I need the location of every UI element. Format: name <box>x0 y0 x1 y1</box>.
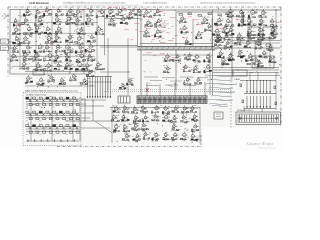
oscillator stage VO5 <box>80 78 90 86</box>
label tick 28 <box>29 14 31 16</box>
bundle arrow 15 <box>263 106 265 108</box>
junction rb0 <box>222 67 223 68</box>
oscillator stage VO1 <box>36 77 45 86</box>
switch junction 21 <box>33 126 34 127</box>
output stage VC1 <box>112 105 121 113</box>
switch contact S02a <box>39 97 42 99</box>
wafer arrow 1 <box>89 96 91 98</box>
solder dot 302 <box>44 94 47 97</box>
solder dot 300 <box>32 132 35 135</box>
svg-text:S1 BAND SWITCH front: S1 BAND SWITCH front <box>26 94 46 97</box>
resistor RC2 <box>274 86 276 89</box>
pencil note 8 <box>213 83 237 86</box>
bundle arrow 05 <box>263 91 265 93</box>
switch contact S02b <box>43 104 46 106</box>
AVC stage VS5 <box>227 52 235 60</box>
red annotation a16 <box>161 37 164 40</box>
amplifier stage V40 <box>32 52 42 62</box>
title underline <box>63 4 140 6</box>
red annotation b6 <box>276 21 282 24</box>
amplifier stage V33 <box>43 44 53 53</box>
switch junction 05 <box>60 99 61 100</box>
label tick 288 <box>79 115 81 117</box>
solder dot 162 <box>247 51 248 52</box>
pencil note 4 <box>206 91 234 94</box>
solder dot 243 <box>192 142 193 143</box>
switch blade S10 <box>29 113 32 115</box>
switch bank border <box>23 93 81 146</box>
red annotation a8 <box>163 25 166 27</box>
label tick 94 <box>168 28 170 30</box>
red annotation b18 <box>160 41 165 44</box>
label tick 284 <box>49 95 51 97</box>
output stage VC18 <box>191 114 199 122</box>
junction m2 <box>133 10 134 11</box>
audio stage VB3 <box>183 52 192 60</box>
amplifier stage V44 <box>75 52 86 63</box>
solder dot 248 <box>161 130 164 133</box>
connector P1 <box>214 112 223 119</box>
driver stage V30b <box>256 60 263 68</box>
wire rbus2 <box>213 72 279 74</box>
label tick 213 <box>38 80 39 82</box>
red annotation c6 <box>50 43 54 46</box>
red annotation b8 <box>218 27 224 30</box>
bundle arrow 13 <box>256 106 258 108</box>
output stage VC12 <box>133 114 142 123</box>
red annotation b17 <box>152 39 155 41</box>
label tick 262 <box>187 128 188 130</box>
solder dot 210 <box>90 84 93 87</box>
label tick 281 <box>260 66 262 68</box>
bundle arrow 07 <box>269 91 271 93</box>
IF stage VI1 <box>153 8 161 16</box>
solder dot 216 <box>46 71 49 74</box>
solder dot 197 <box>189 70 192 73</box>
wafer wire 1 <box>89 77 91 97</box>
solder dot 54 <box>70 64 73 67</box>
switch contact S07a <box>73 97 76 99</box>
wafer arrow 0 <box>87 96 89 98</box>
label tick 152 <box>273 27 275 29</box>
wire T1 vert2 <box>211 19 213 48</box>
switch contact S14b <box>56 118 59 120</box>
electrolytic C40 <box>240 56 243 58</box>
RF stage VR11 <box>225 27 234 36</box>
amplifier stage V30 <box>11 45 19 53</box>
solder dot 251 <box>126 117 129 120</box>
red annotation b14 <box>196 23 201 26</box>
solder dot 144 <box>256 12 257 13</box>
solder dot 53 <box>56 56 59 59</box>
solder dot 138 <box>221 16 222 17</box>
bm h rail <box>110 107 200 109</box>
label tick 12 <box>17 43 19 45</box>
RF stage VRx0 <box>236 33 245 40</box>
bundle bus 0 <box>244 93 276 95</box>
junction c1 <box>108 47 109 48</box>
label tick 105 <box>183 33 184 35</box>
solder dot 86 <box>160 18 163 21</box>
switch contact S16b <box>69 118 72 120</box>
junction rb3 <box>266 67 267 68</box>
switch contact S16a <box>66 111 69 113</box>
resistor RC3 <box>275 102 277 105</box>
label tick 286 <box>35 114 36 116</box>
oscillator stage VO3 <box>58 77 66 84</box>
choke L6 <box>266 44 270 46</box>
switch contact S20a <box>26 125 29 127</box>
red annotation c0 <box>42 10 46 13</box>
label tick 47 <box>94 58 96 60</box>
label tick 155 <box>219 20 221 22</box>
bundle pin dot 1 <box>250 80 251 81</box>
label tick 7 <box>67 66 69 68</box>
bundle arrow 00 <box>246 91 248 93</box>
solder dot 42 <box>95 69 98 72</box>
switch contact S00b <box>29 104 32 106</box>
switch terminal stub 2 <box>40 139 42 141</box>
switch blade S25 <box>62 127 65 129</box>
label tick 222 <box>63 85 65 87</box>
label tick 135 <box>231 18 232 20</box>
solder dot 63 <box>46 11 49 14</box>
output stage VC24 <box>191 123 199 132</box>
amplifier stage V29 <box>86 34 95 43</box>
switch row 0 bus <box>26 103 79 105</box>
pin label tick m2 <box>116 8 118 10</box>
phono jack J2 <box>1 46 9 51</box>
amplifier stage V11 <box>34 17 44 26</box>
solder dot 211 <box>90 70 93 73</box>
label tick 45 <box>62 69 63 71</box>
amplifier stage V13 <box>65 15 75 25</box>
solder dot 264 <box>184 108 187 111</box>
pencil note 1 <box>207 79 233 82</box>
amplifier stage V15 <box>85 16 94 25</box>
switch row 3 bus <box>26 140 79 142</box>
mixer stage VM2 <box>126 10 135 19</box>
switch exit wire 2 <box>81 103 86 105</box>
wafer wire 9 <box>110 77 112 97</box>
label tick 20 <box>65 38 67 40</box>
svg-text:MAIN TUNING RANGE SWITCH SECTI: MAIN TUNING RANGE SWITCH SECTION S1a-f r… <box>25 90 78 93</box>
solder dot 308 <box>36 131 39 134</box>
oscillator box <box>33 70 44 76</box>
wire rbus1 <box>213 69 279 71</box>
bundle pin dot 0 <box>247 80 248 81</box>
pencil note 5 <box>211 95 231 98</box>
resistor RC1 <box>242 100 244 103</box>
label tick 285 <box>32 104 34 106</box>
switch junction 25 <box>60 126 61 127</box>
label tick 137 <box>239 43 240 45</box>
bundle arrow 06 <box>266 91 268 93</box>
label tick 204 <box>143 71 145 73</box>
solder dot 91 <box>159 40 160 41</box>
RF stage VR3 <box>248 9 258 19</box>
solder dot 209 <box>48 75 49 76</box>
label tick 128 <box>271 34 273 36</box>
switch junction 24 <box>54 126 55 127</box>
wafer wire 3 <box>94 77 96 97</box>
switch junction 15 <box>60 113 61 114</box>
transformer core T3 <box>228 59 232 61</box>
amplifier stage V32 <box>34 43 44 54</box>
relay box K1 <box>233 70 247 76</box>
connector P1 pins <box>216 114 221 117</box>
detector stage VW1 <box>126 77 134 85</box>
RF stage VR7 <box>237 17 246 26</box>
detector stage VD0 <box>180 25 189 34</box>
switch blade S07 <box>76 99 79 101</box>
terminal tick 10 <box>263 115 265 123</box>
label tick 191 <box>171 86 173 88</box>
bundle wire 03 <box>256 81 258 92</box>
bundle pin dot 5 <box>263 80 264 81</box>
label tick 196 <box>189 84 191 86</box>
audio stage VB9 <box>203 64 212 73</box>
label tick 112 <box>196 23 198 25</box>
bundle wire 07 <box>269 81 271 92</box>
switch label S24 <box>53 133 55 135</box>
solder dot 61 <box>91 9 94 12</box>
switch label S00 <box>26 106 28 108</box>
wire drop b4 <box>189 84 191 96</box>
wire tb up2 <box>261 109 263 113</box>
jack J2 label <box>2 48 7 50</box>
red annotation a6 <box>151 34 155 37</box>
AVC stage VS8 <box>221 57 230 65</box>
label tick 177 <box>246 60 248 62</box>
label tick 14 <box>72 48 74 50</box>
svg-text:A.F.M. Wommissar: A.F.M. Wommissar <box>29 2 49 5</box>
solder dot 130 <box>272 15 275 18</box>
left rail <box>9 9 11 74</box>
solder dot 282 <box>278 63 281 66</box>
label tick 122 <box>228 38 230 40</box>
bundle arrow 02 <box>253 91 255 93</box>
switch junction 10 <box>27 113 28 114</box>
switch terminal stub 4 <box>53 139 55 141</box>
label tick 73 <box>124 22 126 24</box>
switch label S06 <box>66 106 68 108</box>
label tick 212 <box>28 80 30 82</box>
label tick 131 <box>247 18 249 20</box>
junction sw1 <box>85 121 86 122</box>
switch blade S12 <box>42 113 45 115</box>
switch contact S06b <box>69 104 72 106</box>
switch blade S20 <box>29 127 32 129</box>
switch contact S20b <box>29 131 32 133</box>
label tick 160 <box>233 45 235 47</box>
rail x84 <box>83 9 85 74</box>
label tick 228 <box>120 118 122 120</box>
RF stage VRx2 <box>256 33 264 41</box>
solder dot 18 <box>73 30 76 33</box>
terminal tick 4 <box>248 115 250 123</box>
pencil note 11 <box>216 99 230 102</box>
label tick 171 <box>215 48 217 50</box>
red annotation c1 <box>58 8 62 11</box>
solder dot 192 <box>204 68 207 71</box>
label tick 274 <box>230 52 232 54</box>
wire c h1 <box>100 46 137 48</box>
RF stage VRx1 <box>247 32 255 40</box>
solder dot 84 <box>139 18 142 21</box>
IF transformer box T1 <box>176 12 232 48</box>
label tick 267 <box>144 139 146 141</box>
label tick 175 <box>228 63 229 65</box>
label tick 205 <box>69 72 71 74</box>
label tick 6 <box>75 54 77 56</box>
switch contact S07b <box>76 104 79 106</box>
wafer arrow 2 <box>92 96 94 98</box>
border bottom <box>57 146 201 148</box>
label tick 106 <box>210 30 212 32</box>
detector stage VD1 <box>195 31 203 39</box>
switch contact S12a <box>39 111 42 113</box>
paper area mid <box>23 77 281 127</box>
label tick 95 <box>172 37 174 39</box>
resistor R65 <box>247 63 250 64</box>
output stage VC20 <box>122 124 131 132</box>
label tick 266 <box>116 141 118 143</box>
label tick 299 <box>55 123 57 125</box>
label tick 72 <box>141 18 143 20</box>
label tick 114 <box>182 36 184 38</box>
solder dot 279 <box>276 73 279 76</box>
label tick 26 <box>18 29 20 31</box>
solder dot 5 <box>39 36 42 39</box>
solder dot 132 <box>249 22 252 25</box>
output stage VC13 <box>142 115 150 123</box>
mixer stage VM1 <box>116 7 126 16</box>
label tick 217 <box>63 70 65 72</box>
terminal tick 14 <box>273 115 275 123</box>
label tick 298 <box>74 109 76 111</box>
wire c v2 <box>127 38 129 95</box>
bundle arrow 12 <box>253 106 255 108</box>
switch label S04 <box>53 106 55 108</box>
svg-text:2.2k 470: 2.2k 470 <box>159 20 169 22</box>
label tick 283 <box>76 128 77 130</box>
oscillator stage VO2 <box>47 74 55 82</box>
svg-text:100 4.7k: 100 4.7k <box>160 24 170 26</box>
amplifier stage V45 <box>87 53 95 61</box>
red X mark <box>146 88 149 92</box>
mid label row 5 <box>146 85 159 87</box>
bundle wire 00 <box>246 81 248 92</box>
switch contact S13a <box>46 111 49 113</box>
switch terminal stub 7 <box>73 139 75 141</box>
wire band ext <box>215 47 280 49</box>
bundle arrow 11 <box>250 106 252 108</box>
switch terminal stub 0 <box>27 139 29 141</box>
label tick 161 <box>246 44 248 46</box>
IF stage VI4 <box>143 29 151 38</box>
terminal bus block <box>137 96 207 104</box>
terminal tick 8 <box>258 115 260 123</box>
label tick 273 <box>271 62 273 64</box>
switch contact S27a <box>73 125 76 127</box>
switch contact S17b <box>76 118 79 120</box>
wafer wire 2 <box>92 77 94 97</box>
solder dot 141 <box>272 29 275 32</box>
label tick 165 <box>239 44 240 46</box>
switch junction 06 <box>67 99 68 100</box>
red annotation b10 <box>172 56 178 59</box>
label tick 38 <box>20 15 22 17</box>
red annotation b4 <box>189 69 194 72</box>
antenna input symbol <box>2 13 9 19</box>
switch contact S10a <box>26 111 29 113</box>
audio stage VB4 <box>193 54 201 63</box>
driver stage V27 <box>185 39 193 45</box>
paper area <box>8 7 281 77</box>
TR bus3 <box>232 42 280 44</box>
label tick 40 <box>99 68 101 70</box>
label tick 190 <box>196 64 198 66</box>
label tick 234 <box>186 130 188 132</box>
switch blade S11 <box>36 113 39 115</box>
bundle wire 01 <box>249 81 251 92</box>
bundle arrow 04 <box>259 91 261 93</box>
pin label tick m0 <box>107 8 109 10</box>
output stage VC5 <box>151 105 160 114</box>
pencil note 3 <box>209 87 233 90</box>
switch contact S14a <box>53 111 56 113</box>
resistor RT4 <box>218 14 221 16</box>
switch contact S05a <box>59 97 62 99</box>
RF stage VR5 <box>214 17 223 26</box>
mid label row 3 <box>180 76 194 78</box>
label tick 241 <box>196 126 198 128</box>
label tick 181 <box>175 59 177 61</box>
solder dot 44 <box>77 59 80 62</box>
wire mid vert 1 <box>140 10 142 95</box>
label tick 87 <box>174 10 176 12</box>
bundle arrow 17 <box>269 106 271 108</box>
driver stage V28 <box>254 41 262 49</box>
rectifier stage V24 <box>252 57 260 65</box>
audio stage VB6 <box>163 66 171 74</box>
switch contact S23a <box>46 125 49 127</box>
wire sw drop1 <box>84 100 86 121</box>
solder dot 2 <box>38 62 39 63</box>
solder dot 168 <box>217 61 220 64</box>
bundle bus 1 <box>244 108 276 110</box>
rm vert1 <box>254 40 256 67</box>
mid label row 8 <box>150 80 162 82</box>
solder dot 108 <box>221 28 224 31</box>
switch row 1 bus upper <box>26 112 79 114</box>
label tick 119 <box>226 26 228 28</box>
pencil note 2 <box>205 83 237 86</box>
solder dot 229 <box>117 109 120 112</box>
output stage VC28 <box>151 132 160 141</box>
switch junction 13 <box>47 113 48 114</box>
RF stage VR6 <box>225 18 234 27</box>
audio stage VB7 <box>183 64 191 72</box>
wafer arrow 3 <box>94 96 96 98</box>
amplifier stage V24 <box>23 35 31 44</box>
switch contact S22a <box>39 125 42 127</box>
red annotation b2 <box>160 52 165 55</box>
mixer stage VM4 <box>108 17 116 26</box>
solder dot 3 <box>15 45 18 48</box>
label tick 252 <box>157 105 158 107</box>
